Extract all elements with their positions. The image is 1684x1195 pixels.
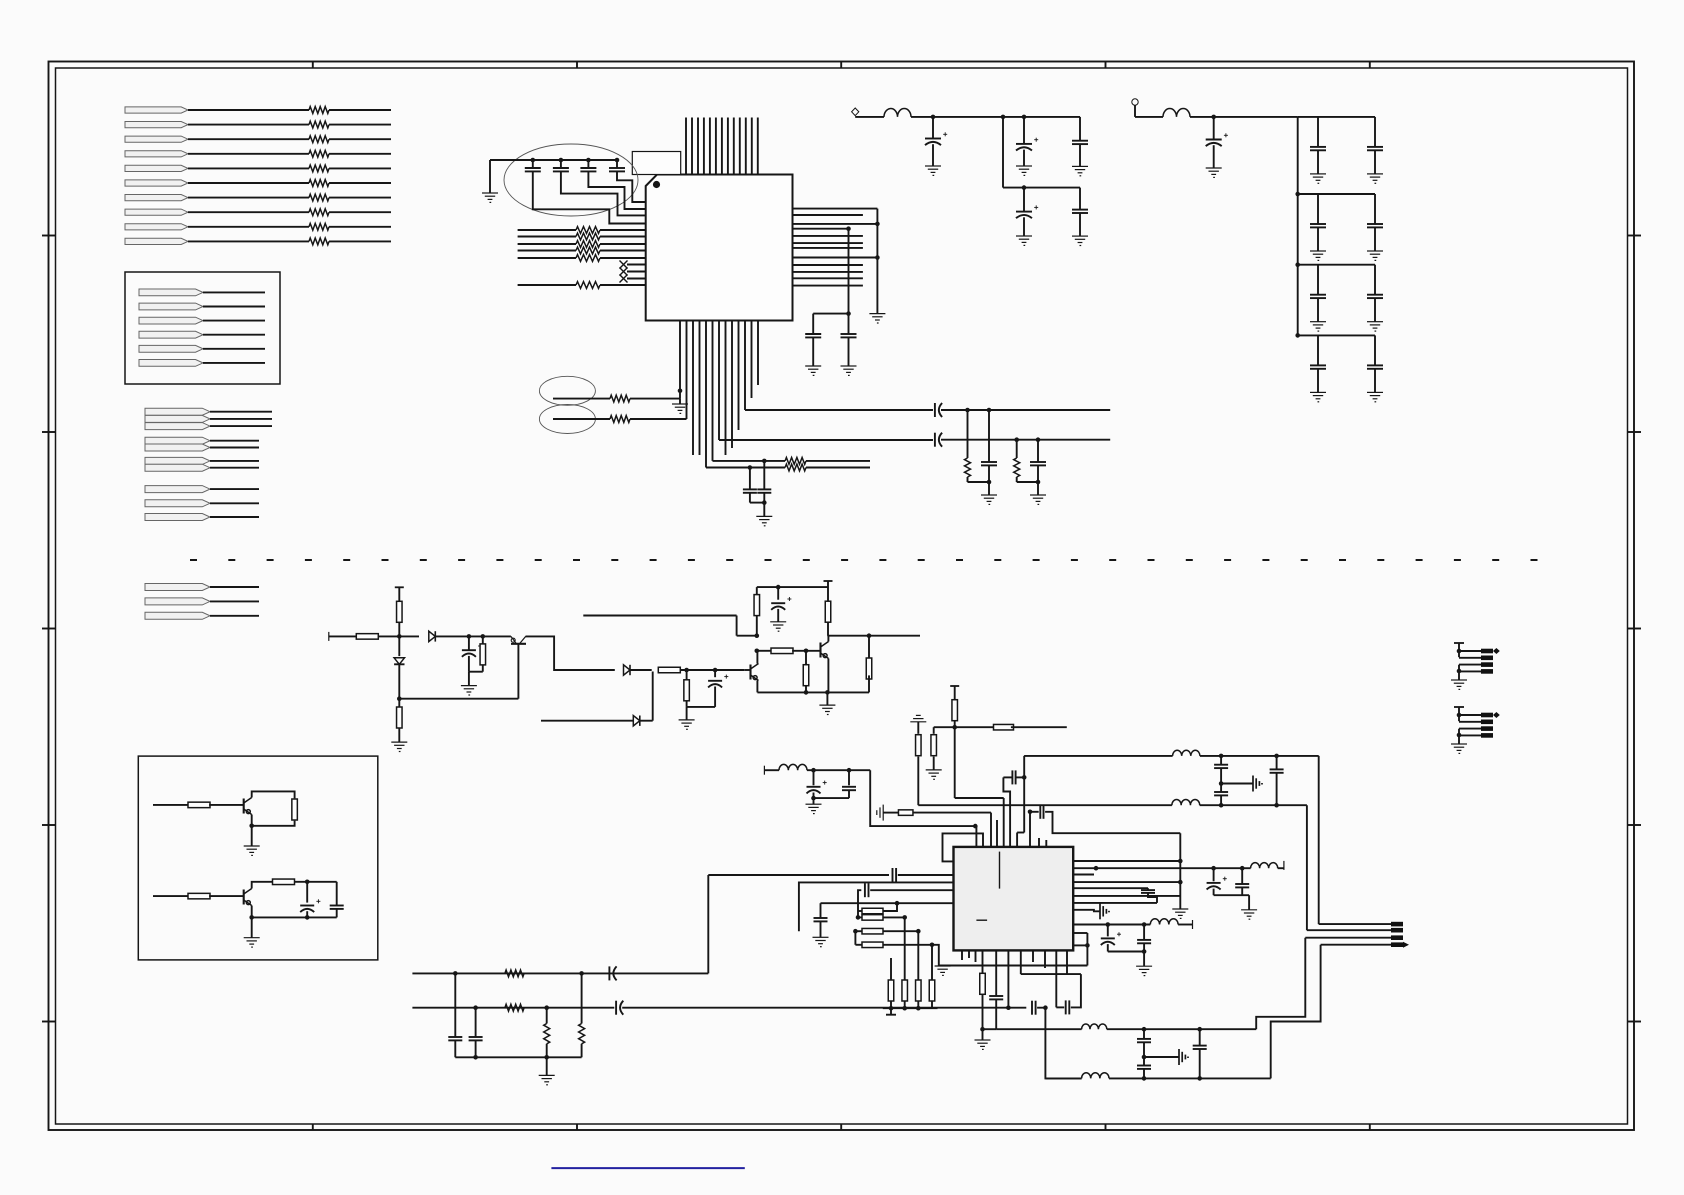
wire [848,790,850,798]
net flag FL2 [145,598,210,605]
wire [546,1057,548,1075]
U1 right pin wire y=285.6 [793,285,863,287]
pin J1-4 [1481,669,1493,674]
wire [398,587,400,601]
wire [203,348,265,350]
wire [1134,105,1136,117]
junction [1178,859,1183,864]
U2 bottom pin b7 wire [1055,950,1057,1007]
cap bank row 3 rail [1298,264,1375,266]
net flag FB4 [139,331,203,338]
capacitor C56 lead [1220,784,1222,793]
wire [210,502,259,504]
capacitor C23 lead [777,587,779,600]
wire [967,410,969,458]
wire [812,337,814,366]
net flag FG1 [145,408,210,415]
wire [792,650,820,652]
terminal tick [1454,706,1464,708]
ground [1367,251,1383,260]
wire bus b2 [518,243,576,245]
capacitor CB42 [1367,365,1383,368]
capacitor C82 (series) [616,1001,623,1015]
capacitor CP2 lead [1023,117,1025,144]
junction cap C1 [531,158,536,163]
junction [467,634,472,639]
diode D3 [624,665,631,675]
wire [630,398,680,400]
wire [203,320,265,322]
ground [539,1075,555,1084]
capacitor C85 lead [475,1008,477,1037]
resistor RY1 [965,458,971,477]
pin J3-3 [1391,935,1403,940]
junction [713,668,718,673]
no-connect X2 [620,268,628,276]
wire [763,503,765,517]
resistor R7 [309,194,329,201]
wire [329,153,391,155]
junction [305,880,310,885]
resistor R81 [505,970,524,977]
capacitor C59 [1235,884,1249,887]
U1 bottom pin x=758 [757,321,759,386]
junction [755,633,760,638]
wire [813,798,815,804]
ground [244,938,260,947]
wire [826,692,828,705]
capacitor C1 [525,168,541,171]
wire [627,271,646,273]
wire [1016,776,1025,778]
no-connect X3 [620,275,628,283]
junction [931,115,936,120]
wire [706,467,785,469]
ground (sideways) [1253,776,1262,792]
capacitor C88 lead [1199,1029,1201,1045]
wire [329,211,391,213]
wire [210,418,272,420]
wire J3 pin3 [1305,937,1391,939]
junction [895,901,900,906]
capacitor C51 (series) [1012,770,1015,784]
wire [1248,895,1250,910]
wire [868,675,870,692]
ground [1451,680,1467,689]
net flag F8 [125,209,188,215]
capacitor C85 [469,1037,483,1040]
U2 pin t11 stub [1045,840,1047,847]
net flag FG9 [145,500,210,507]
junction [1142,1027,1147,1032]
wire [398,664,400,698]
ground [482,193,498,202]
capacitor C58 lead [1213,868,1215,881]
wire [917,1001,919,1008]
ground [1310,174,1326,183]
wire [398,636,400,656]
wire [336,909,338,918]
inductor L53 [1172,799,1200,805]
capacitor CP4 lead [1023,188,1025,212]
wire [1458,729,1460,744]
wire rail [1190,116,1298,118]
capacitor C86 [1137,1039,1151,1042]
wire [858,910,862,912]
net flag FB1 [139,289,203,296]
wire [600,229,646,231]
resistor RN1 [576,227,600,234]
net flag FG5 [145,444,210,451]
wire upper long line [996,1028,1081,1030]
pin J3-4 [1391,942,1403,947]
wire [468,656,470,672]
U2 internal mark 1 [999,852,1001,889]
wire [750,502,764,504]
junction [1295,192,1300,197]
ground [1310,392,1326,401]
wire from F5 [188,167,309,169]
wire [917,757,919,806]
wire Q1 collector to D3 [526,636,615,670]
wire [1107,944,1109,951]
wire Q4 emitter [251,815,253,847]
net flag F3 [125,136,188,142]
wire line B cont [941,439,1110,441]
junction [1457,713,1462,718]
wire [1011,726,1067,728]
wire bus b0 [518,229,576,231]
wire [1056,1006,1064,1008]
resistor R27 [754,595,760,616]
wire from F1 [188,109,309,111]
transistor Q3 [821,642,829,659]
pin J1-1 [1481,649,1493,654]
net flag FB2 [139,303,203,310]
ground (sideways) [1100,903,1109,919]
capacitor C42 lead [336,882,338,906]
power symbol (inverted ground) [910,715,926,721]
wire down-left [707,875,709,973]
capacitor C86 lead [1143,1029,1145,1039]
wire [210,600,259,602]
capacitor C41 (polarized) [300,906,314,913]
capacitor C83 (series) [1032,1001,1036,1015]
wire bus b4 [518,257,576,259]
ground [1030,495,1046,504]
wire [1109,1077,1271,1079]
U1 right pin wire y=247.9 [793,247,863,249]
inductor L56 [1082,1073,1109,1079]
capacitor C60 lead [1147,888,1149,890]
U1 bottom pin x=738.5 [738,321,740,431]
wire [329,138,391,140]
U2 bottom pin b0c stub [975,950,977,962]
capacitor C61 (polarized) [1101,938,1115,945]
wire [1200,755,1319,757]
wire [600,243,646,245]
wire R64 right [883,945,939,966]
IC U1 pin-1 mark [653,181,660,188]
U2 pin t1 [975,826,977,847]
wire [827,622,829,636]
wire [1079,213,1081,236]
wire [329,240,391,242]
wire Q2 collector [756,651,758,664]
junction [1036,437,1041,442]
inductor FB2 [1163,109,1190,117]
junction [762,459,767,464]
junction [1022,185,1027,190]
ground [1367,174,1383,183]
resistor R82 [505,1004,524,1011]
capacitor CQ0 lead [1213,117,1215,140]
wire [1220,795,1222,805]
ground [1310,251,1326,260]
capacitor C5 lead [812,314,814,334]
wire [1135,116,1163,118]
resistor R61 [862,908,883,914]
resistor RY2 [1014,458,1020,477]
wire from F4 [188,153,309,155]
capacitor CB11 lead [1317,117,1319,147]
capacitor C55 lead [1220,756,1222,765]
capacitor C70 [989,996,1003,999]
ground [1016,166,1032,175]
wire [1037,440,1039,462]
wire [398,622,400,636]
net flag F7 [125,195,188,201]
wire [581,1044,583,1058]
ground [1367,322,1383,331]
wire [931,945,933,980]
resistor R2 [309,121,329,128]
wire [210,440,259,442]
capacitor C22 lead [714,670,716,677]
wire bottom join [455,1056,581,1058]
net flag FG10 [145,514,210,521]
resistor RN3 [576,241,600,248]
wire Q5 emitter [251,906,253,938]
wire [1276,773,1278,805]
border zone ticks left [42,235,56,237]
resistor R84 [579,1024,585,1044]
capacitor CP4 (polarized) [1016,212,1032,219]
wire [600,250,646,252]
wire [482,636,484,643]
junction [1006,1005,1011,1010]
capacitor CB32 lead [1374,265,1376,295]
wire [1213,145,1215,168]
J1 pin1 arrow tip [1493,648,1500,654]
wire [600,284,646,286]
wire [1213,889,1215,896]
capacitor C2 [553,168,569,171]
capacitor C58 (polarized) [1207,883,1221,890]
pin J1-3 [1481,662,1493,667]
wire bus to ground [876,209,878,314]
wire [1079,144,1081,166]
wire [652,672,654,721]
wire [806,460,870,462]
wire [630,418,687,420]
junction [980,1027,985,1032]
wire [1143,952,1145,967]
wire [1214,867,1243,869]
wire [982,994,984,1040]
capacitor C53 [842,787,856,790]
wire [995,999,997,1029]
ground [672,404,688,413]
junction [1274,803,1279,808]
net flag F4 [125,151,188,157]
U1 bottom pin x=699.5 [699,321,701,456]
capacitor CL2 [757,489,771,492]
wire [1002,117,1004,188]
ground [1451,744,1467,753]
wire J1 pin3 [1459,664,1481,666]
wire [983,1028,997,1030]
capacitor C21 (polarized) [462,650,476,657]
junction [1197,1076,1202,1081]
wire [518,284,576,286]
wire line A cont [941,409,1110,411]
junction [1240,866,1245,871]
ground [1072,236,1088,245]
wire [954,727,956,798]
capacitor CL1 lead [749,468,751,490]
junction [987,408,992,413]
wire [988,465,990,482]
wire [210,516,259,518]
wire bus b1 [518,236,576,238]
wire [600,257,646,259]
junction [678,389,683,394]
wire [890,1001,892,1008]
ground [1310,322,1326,331]
wire [475,1040,477,1057]
capacitor C6 lead [848,314,850,334]
wire [627,264,646,266]
net flag FG3 [145,423,210,430]
wire [763,493,765,503]
wire [744,669,750,671]
wire Q3 emitter [827,659,829,693]
resistor RN4 [576,247,600,254]
wire J1 pin2 [1459,657,1481,659]
net flag F10 [125,238,188,244]
wire J1 pin1 [1459,650,1481,652]
ground [806,804,822,813]
diode D4 [633,716,640,726]
junction [965,408,970,413]
U1 bottom pin x=693 [692,321,694,456]
junction [1028,810,1033,815]
U1 right pin wire y=215 [793,214,863,216]
inductor L57 [1082,1024,1107,1029]
wire [541,720,633,722]
capacitor CP3 [1072,141,1088,144]
junction [1219,781,1224,786]
wire [209,895,244,897]
cap bank row 2 rail [1298,193,1375,195]
U2 right pin r9 wire [1073,924,1150,926]
wire [1023,150,1025,166]
capacitor CB22 [1367,224,1383,227]
U1 bottom pin x=719 [718,321,720,441]
U2 right pin r2 wire (VCC) [1073,867,1213,869]
U1 bottom pin x=751.5 [751,321,753,399]
capacitor CL2 lead [763,461,765,490]
wire [1086,933,1088,966]
capacitor C52 lead [813,770,815,785]
capacitor CY2 [1030,462,1046,465]
wire [686,670,688,681]
wire [757,650,772,652]
inductor L51 [779,764,807,770]
terminal tick [1192,920,1194,929]
wire [814,797,850,799]
wire stair to J3 pin4 [1271,945,1321,1079]
wire join R61/R62 [857,911,859,917]
capacitor CB22 lead [1374,194,1376,224]
hyperlink underline [551,1167,744,1169]
resistor R23 [397,707,403,728]
wire [1021,973,1081,975]
capacitor C57 [1270,769,1284,772]
wire [1278,867,1284,869]
wire [1108,951,1144,953]
U2 right pin r4 wire [1073,881,1180,883]
wire from F3 [188,138,309,140]
resistor RZ1 [785,458,806,465]
ground [756,516,772,525]
resistor R26 [684,680,690,701]
capacitor CP3 lead [1079,117,1081,141]
wire [736,616,738,636]
transistor Q1 [511,636,526,643]
wire [468,672,470,686]
wire J3 pin1 [1319,923,1391,925]
IC U1 outline [646,175,793,321]
wire J3 pin2 [1307,929,1391,931]
wire [630,669,652,671]
wire [807,769,870,771]
top tick [395,586,404,588]
ellipse marker E1 [539,376,595,405]
wire C54 to right bus [1045,812,1180,833]
wire to U2 pin [870,770,976,826]
resistor R83 [544,1024,550,1044]
wire [917,722,919,734]
capacitor C21 lead [468,636,470,650]
wire [1003,776,1012,778]
wire [1220,768,1222,783]
U1 right pin wire y=265 [793,264,863,266]
wire [954,721,956,728]
ground [391,742,407,751]
wire [713,460,786,462]
net flag F1 [125,107,188,113]
resistor R29 [771,648,793,654]
capacitor C22 (polarized) [708,681,722,688]
resistor R74 [929,980,935,1001]
wire under U2 [939,965,1088,967]
wire [848,337,850,366]
junction [1457,669,1462,674]
wire [686,701,688,707]
diode D1 [429,631,436,641]
